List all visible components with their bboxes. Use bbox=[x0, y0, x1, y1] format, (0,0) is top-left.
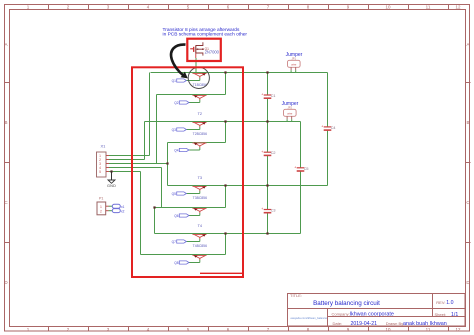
net tag Q7 bbox=[172, 240, 187, 244]
wire riser T4b to cell4 bbox=[225, 234, 227, 255]
svg-text:+: + bbox=[261, 207, 263, 211]
wire T2b row bbox=[168, 142, 226, 144]
svg-text:anak buah Ikhwan: anak buah Ikhwan bbox=[403, 321, 447, 327]
net tag Q2 bbox=[174, 101, 189, 105]
svg-text:Q7: Q7 bbox=[172, 240, 176, 244]
capacitor C5 bbox=[294, 165, 308, 171]
svg-text:T3: T3 bbox=[198, 176, 202, 180]
annotation arrow bbox=[171, 45, 188, 79]
svg-text:Q6: Q6 bbox=[174, 214, 178, 218]
transistor T2b row bbox=[189, 143, 207, 150]
wire column C5 bbox=[300, 122, 302, 234]
wire T1b to pin3 riser bbox=[156, 95, 158, 164]
transistor T3 row bbox=[186, 186, 206, 193]
svg-text:2019-04-21: 2019-04-21 bbox=[351, 321, 378, 327]
svg-text:X1: X1 bbox=[101, 144, 107, 149]
svg-text:in PCB schema complement each: in PCB schema complement each other bbox=[163, 32, 248, 38]
wire capacitor column C1-C3 bbox=[267, 73, 269, 234]
svg-text:2N7000: 2N7000 bbox=[205, 49, 220, 54]
capacitor C1 bbox=[261, 93, 275, 99]
transistor T1b row bbox=[189, 95, 207, 102]
net tag Q5 bbox=[172, 192, 187, 196]
svg-text:2: 2 bbox=[100, 210, 102, 214]
transistor Q1 2N7000 annotation box bbox=[187, 39, 221, 61]
wire pin4 to T3b riser bbox=[161, 168, 163, 208]
svg-text:C4: C4 bbox=[331, 126, 336, 130]
transistor T1 row bbox=[186, 73, 206, 80]
svg-text:x2: x2 bbox=[121, 209, 125, 213]
svg-text:+: + bbox=[294, 165, 296, 169]
REV cell bbox=[436, 300, 453, 306]
pad tag B+ bbox=[112, 204, 124, 209]
svg-text:Q1: Q1 bbox=[172, 79, 176, 83]
svg-text:Q8: Q8 bbox=[174, 261, 178, 265]
svg-text:Company:: Company: bbox=[332, 312, 350, 317]
frame grid row letters bbox=[4, 42, 470, 285]
label T4 bbox=[198, 224, 202, 228]
wire X1 pin5 to GND bbox=[109, 171, 141, 173]
svg-text:12: 12 bbox=[455, 327, 461, 332]
svg-text:A: A bbox=[4, 42, 7, 47]
ground GND bbox=[107, 172, 116, 189]
svg-text:A: A bbox=[466, 42, 469, 47]
wire T3b to cell4 riser bbox=[154, 208, 156, 234]
red extra segment bbox=[200, 272, 243, 274]
wire pin2 to cell2 riser bbox=[144, 122, 146, 160]
transistor T4b row bbox=[189, 255, 207, 262]
svg-text:Q4: Q4 bbox=[174, 148, 178, 152]
wire net cell3 rail bbox=[168, 185, 328, 187]
svg-text:C2: C2 bbox=[271, 151, 276, 155]
jumper JP2 bbox=[282, 101, 299, 122]
svg-text:11: 11 bbox=[426, 5, 431, 10]
net tag Q6 bbox=[174, 214, 189, 218]
wire net cell2 rail bbox=[145, 121, 301, 123]
wire riser T1b to cell1 bbox=[225, 73, 227, 95]
svg-text:Ikhwan coorporate: Ikhwan coorporate bbox=[350, 312, 394, 318]
wire net cell4 rail bbox=[155, 233, 301, 235]
title text Battery balancing circuit bbox=[313, 300, 380, 307]
wire riser T2b to cell2 bbox=[225, 122, 227, 143]
transistor T2 row bbox=[186, 122, 206, 129]
svg-text:REV:: REV: bbox=[436, 300, 445, 305]
Company cell bbox=[332, 312, 394, 318]
svg-text:Q3: Q3 bbox=[172, 128, 176, 132]
wire X1 pin1 bbox=[109, 155, 150, 157]
svg-text:T3BC856: T3BC856 bbox=[193, 196, 207, 200]
svg-text:Drawn By:: Drawn By: bbox=[386, 321, 404, 326]
svg-text:10: 10 bbox=[385, 327, 391, 332]
wire T4b row bbox=[141, 254, 226, 256]
title block box bbox=[288, 294, 466, 327]
connector P1 bbox=[97, 197, 112, 215]
svg-text:1: 1 bbox=[100, 205, 102, 209]
svg-text:T4BC856: T4BC856 bbox=[193, 244, 207, 248]
wire pin5 to T4b riser bbox=[140, 172, 142, 255]
Drawn By cell bbox=[386, 321, 447, 327]
wire right rail C4 bbox=[327, 73, 329, 186]
wire riser T3b to cell3 bbox=[225, 186, 227, 208]
svg-text:Date:: Date: bbox=[333, 321, 343, 326]
svg-text:T2BC856: T2BC856 bbox=[193, 132, 207, 136]
jumper JP1 bbox=[286, 52, 303, 73]
svg-text:+: + bbox=[261, 150, 263, 154]
svg-text:12: 12 bbox=[455, 5, 461, 10]
wire pin1 to cell1 riser bbox=[149, 73, 151, 156]
svg-text:x1: x1 bbox=[121, 205, 125, 209]
svg-text:TITLE:: TITLE: bbox=[290, 293, 302, 298]
capacitor C3 bbox=[261, 207, 275, 213]
svg-text:B: B bbox=[4, 120, 7, 125]
capacitor C2 bbox=[261, 150, 275, 156]
svg-text:11: 11 bbox=[426, 327, 431, 332]
svg-text:Q2: Q2 bbox=[174, 101, 178, 105]
red highlight rectangle bbox=[132, 67, 243, 277]
net tag Q1 bbox=[172, 79, 187, 83]
svg-text:10: 10 bbox=[385, 5, 391, 10]
annotation text bbox=[163, 27, 248, 38]
svg-text:1.0: 1.0 bbox=[446, 300, 453, 306]
label T1BC856 bbox=[193, 83, 207, 87]
svg-text:GND: GND bbox=[107, 184, 116, 188]
svg-text:easyeda.com/ikhwan_balancer: easyeda.com/ikhwan_balancer bbox=[291, 316, 328, 320]
label T3 bbox=[198, 176, 202, 180]
svg-text:5: 5 bbox=[99, 170, 101, 174]
svg-text:Sheet:: Sheet: bbox=[435, 312, 447, 317]
svg-text:+: + bbox=[321, 125, 323, 129]
label T2 bbox=[198, 112, 202, 116]
wire T1b row bbox=[157, 94, 226, 96]
junction dots bbox=[110, 71, 268, 234]
svg-text:Q5: Q5 bbox=[172, 192, 176, 196]
transistor T3b row bbox=[189, 208, 207, 215]
transistor T4 row bbox=[186, 234, 206, 241]
connector X1 bbox=[97, 144, 110, 178]
title block TITLE label bbox=[290, 293, 302, 298]
net tag Q4 bbox=[174, 148, 189, 152]
wire X1 pin4 bbox=[109, 167, 162, 169]
easyeda url text bbox=[291, 316, 328, 320]
svg-text:Battery balancing circuit: Battery balancing circuit bbox=[313, 300, 380, 307]
wire X1 pin2 bbox=[109, 159, 145, 161]
net tag Q8 bbox=[174, 261, 189, 265]
net tag Q3 bbox=[172, 128, 187, 132]
label T4BC856 bbox=[193, 244, 207, 248]
wire T3b row bbox=[155, 207, 226, 209]
label T2BC856 bbox=[193, 132, 207, 136]
circle highlight around T1 bbox=[188, 67, 209, 88]
svg-text:wire: wire bbox=[287, 112, 293, 116]
pad tag B- bbox=[112, 209, 124, 214]
svg-text:C3: C3 bbox=[271, 209, 276, 213]
wire 2N7000 annotation pin drop bbox=[195, 58, 197, 73]
svg-text:C5: C5 bbox=[304, 167, 309, 171]
svg-text:wire: wire bbox=[291, 63, 297, 67]
svg-text:P1: P1 bbox=[99, 197, 103, 201]
svg-text:1/1: 1/1 bbox=[451, 312, 458, 318]
Date cell bbox=[333, 321, 378, 327]
svg-text:B: B bbox=[466, 120, 469, 125]
capacitor C4 bbox=[321, 125, 335, 131]
wire X1 pin3 bbox=[109, 163, 168, 165]
wire T2b to cell3 riser bbox=[167, 143, 169, 186]
Sheet cell bbox=[435, 312, 459, 318]
frame row ticks left/right bbox=[5, 83, 471, 243]
svg-text:T4: T4 bbox=[198, 224, 202, 228]
wire net cell1 top rail bbox=[151, 72, 328, 74]
svg-text:+: + bbox=[261, 93, 263, 97]
svg-text:T2: T2 bbox=[198, 112, 202, 116]
label T3BC856 bbox=[193, 196, 207, 200]
svg-text:C1: C1 bbox=[271, 94, 276, 98]
